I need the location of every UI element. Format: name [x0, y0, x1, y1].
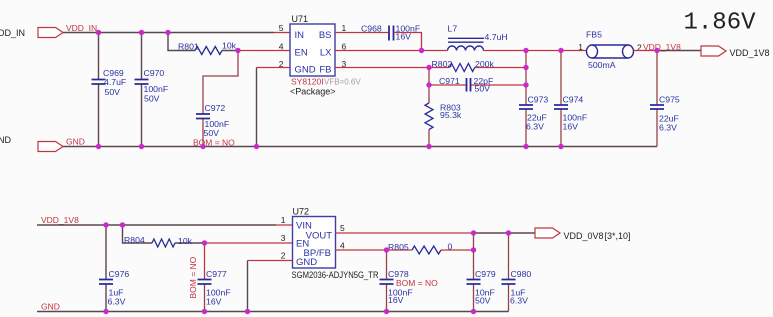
resistor R804: [152, 239, 175, 247]
wire C974 column: [560, 51, 562, 147]
svg-text:16V: 16V: [206, 297, 222, 307]
capacitor C980: [502, 280, 516, 285]
capacitor C969: [92, 80, 106, 85]
svg-text:3: 3: [281, 233, 286, 243]
svg-text:95.3k: 95.3k: [440, 110, 462, 120]
svg-text:C970: C970: [144, 68, 165, 78]
svg-text:GND: GND: [296, 257, 317, 268]
svg-text:U71: U71: [292, 14, 309, 24]
wire C970 branch: [141, 33, 143, 147]
wire R804 branch: [123, 225, 205, 243]
svg-text:500mA: 500mA: [588, 60, 616, 70]
node dot: [558, 48, 563, 53]
node dot: [202, 240, 207, 245]
svg-text:4: 4: [340, 241, 345, 251]
svg-text:50V: 50V: [475, 84, 491, 94]
svg-text:C972: C972: [205, 103, 226, 113]
capacitor C973: [519, 105, 533, 109]
svg-text:DD_IN: DD_IN: [0, 28, 25, 38]
node dot: [165, 30, 170, 35]
svg-text:6.3V: 6.3V: [108, 297, 126, 307]
svg-text:L7: L7: [448, 24, 458, 34]
node dot: [254, 144, 259, 149]
svg-text:4: 4: [279, 42, 284, 52]
node dot: [96, 144, 101, 149]
wire BP/FB row: [336, 249, 474, 251]
wire C971 row: [429, 84, 526, 86]
junction dots top: [96, 30, 660, 149]
svg-text:2: 2: [281, 251, 286, 261]
svg-text:5: 5: [279, 23, 284, 33]
svg-text:C977: C977: [206, 269, 227, 279]
svg-text:BS: BS: [319, 30, 332, 41]
svg-text:50V: 50V: [105, 87, 121, 97]
svg-text:R802: R802: [432, 59, 453, 69]
svg-text:GND: GND: [295, 65, 316, 76]
node dot: [523, 144, 528, 149]
junction dots bottom: [103, 222, 511, 314]
capacitor C977: [198, 280, 212, 285]
svg-text:VDD_1V8: VDD_1V8: [41, 215, 79, 225]
svg-text:VDD_1V8: VDD_1V8: [730, 48, 770, 58]
svg-text:R804: R804: [124, 235, 145, 245]
svg-text:200k: 200k: [475, 59, 494, 69]
node dot: [96, 30, 101, 35]
node dot: [200, 144, 205, 149]
svg-text:50V: 50V: [204, 128, 220, 138]
svg-text:FB: FB: [319, 65, 331, 76]
svg-text:1: 1: [281, 215, 286, 225]
wire C969 branch: [98, 33, 100, 147]
wire LX row: [335, 50, 587, 52]
svg-text:C980: C980: [511, 269, 532, 279]
svg-text:<Package>: <Package>: [290, 87, 336, 97]
wire C980 column: [508, 233, 510, 312]
port VDD_0V8: [535, 228, 560, 238]
node dot: [139, 144, 144, 149]
svg-text:GND: GND: [66, 137, 85, 147]
svg-text:BOM = NO: BOM = NO: [396, 278, 438, 288]
svg-text:C979: C979: [475, 269, 496, 279]
svg-text:1: 1: [578, 42, 583, 52]
svg-text:LX: LX: [320, 48, 332, 59]
svg-text:U72: U72: [293, 207, 310, 217]
svg-text:VFB=0.6V: VFB=0.6V: [324, 78, 361, 87]
resistor R805: [412, 246, 441, 254]
svg-text:C974: C974: [563, 95, 584, 105]
op-amp U71: [290, 24, 335, 76]
wire pin5 stub: [274, 32, 290, 34]
port VDD_IN: [38, 28, 63, 38]
node dot: [471, 309, 476, 314]
node dot: [426, 65, 431, 70]
wire VDD_IN main: [63, 32, 274, 34]
wire GND rail top: [63, 146, 657, 148]
node dot: [523, 82, 528, 87]
node dot: [654, 48, 659, 53]
svg-text:50V: 50V: [475, 296, 491, 306]
svg-text:1: 1: [342, 23, 347, 33]
wire R801 to EN: [238, 50, 290, 52]
wire C968 to LX node: [394, 33, 422, 51]
node dot: [558, 144, 563, 149]
svg-text:2: 2: [279, 59, 284, 69]
capacitor C970: [135, 80, 149, 85]
svg-text:R805: R805: [388, 242, 409, 252]
svg-text:6.3V: 6.3V: [526, 122, 544, 132]
inductor L7: [448, 46, 484, 51]
svg-text:1.86V: 1.86V: [684, 10, 757, 37]
wire VDD_1V8 rail: [37, 224, 276, 226]
wire C972 jog: [203, 51, 238, 115]
resistor R802: [450, 64, 475, 72]
capacitor C971: [467, 78, 471, 92]
svg-text:4.7uH: 4.7uH: [485, 32, 508, 42]
svg-text:C975: C975: [659, 95, 680, 105]
svg-text:FB5: FB5: [586, 30, 602, 40]
svg-text:10k: 10k: [178, 236, 193, 246]
svg-text:6.3V: 6.3V: [510, 296, 528, 306]
capacitor C979: [467, 280, 481, 285]
port GND: [38, 142, 63, 152]
wire C975 column: [656, 51, 658, 147]
svg-text:4.7uF: 4.7uF: [104, 77, 126, 87]
node dot: [384, 247, 389, 252]
svg-text:VDD_0V8: VDD_0V8: [564, 231, 604, 241]
svg-text:100nF: 100nF: [144, 84, 169, 94]
wire FB row: [335, 67, 526, 69]
wire C972 lower: [202, 119, 204, 147]
svg-text:10k: 10k: [222, 41, 237, 51]
node dot: [103, 222, 108, 227]
node dot: [523, 48, 528, 53]
svg-text:VDD_1V8: VDD_1V8: [643, 42, 681, 52]
svg-text:EN: EN: [295, 48, 308, 59]
wire C978 column: [386, 250, 388, 312]
node dot: [426, 144, 431, 149]
wire U71 pin2 GND: [257, 67, 291, 69]
wire R801 branch: [168, 33, 238, 51]
svg-text:16V: 16V: [388, 295, 404, 305]
node dot: [419, 48, 424, 53]
svg-text:IN: IN: [295, 30, 305, 41]
wire FB5 out: [634, 50, 658, 52]
svg-text:16V: 16V: [563, 122, 579, 132]
svg-text:6.3V: 6.3V: [659, 123, 677, 133]
node dot: [245, 309, 250, 314]
node dot: [120, 222, 125, 227]
svg-text:SY8120I: SY8120I: [291, 77, 324, 87]
svg-text:C976: C976: [109, 269, 130, 279]
svg-text:C973: C973: [528, 95, 549, 105]
node dot: [471, 230, 476, 235]
node dot: [523, 65, 528, 70]
svg-text:SGM2036-ADJYN5G_TR: SGM2036-ADJYN5G_TR: [292, 270, 379, 280]
wire C976 column: [105, 225, 107, 312]
svg-text:5: 5: [340, 223, 345, 233]
resistor R801: [195, 47, 222, 55]
wire VOUT row: [336, 232, 474, 234]
wire pin1 stub: [276, 224, 293, 226]
svg-text:0: 0: [448, 242, 453, 252]
op-amp U72: [293, 217, 336, 269]
wire C977 column: [204, 243, 206, 280]
ferrite bead FB5: [592, 45, 628, 58]
node dot: [506, 230, 511, 235]
svg-text:VOUT: VOUT: [306, 231, 333, 242]
wire R804 to EN: [205, 242, 293, 244]
wire GND rail bottom: [37, 311, 509, 313]
capacitor C975: [650, 105, 664, 109]
wire BS to C968: [335, 32, 388, 34]
svg-text:GND: GND: [41, 302, 60, 312]
node dot: [202, 309, 207, 314]
wire C973 column: [525, 51, 527, 147]
wire R803 column: [428, 68, 430, 147]
wire U72 pin2 GND: [248, 260, 293, 262]
svg-text:50V: 50V: [144, 94, 160, 104]
svg-text:C971: C971: [439, 76, 460, 86]
node dot: [235, 48, 240, 53]
node dot: [384, 309, 389, 314]
node dot: [103, 309, 108, 314]
svg-text:R801: R801: [178, 42, 199, 52]
capacitor C976: [99, 280, 113, 285]
capacitor C972: [196, 114, 210, 119]
svg-text:[3*,10]: [3*,10]: [605, 231, 631, 241]
resistor R803: [425, 103, 433, 130]
capacitor C968: [389, 26, 394, 41]
svg-text:C968: C968: [361, 24, 382, 34]
node dot: [471, 247, 476, 252]
svg-text:ND: ND: [0, 135, 11, 145]
capacitor C978: [380, 280, 394, 285]
capacitor C974: [554, 105, 568, 109]
node dot: [139, 30, 144, 35]
svg-text:BOM = NO: BOM = NO: [188, 256, 198, 298]
wire C979 column: [473, 233, 475, 312]
node dot: [426, 82, 431, 87]
svg-text:VDD_IN: VDD_IN: [66, 23, 97, 33]
port VDD_1V8: [701, 46, 726, 56]
